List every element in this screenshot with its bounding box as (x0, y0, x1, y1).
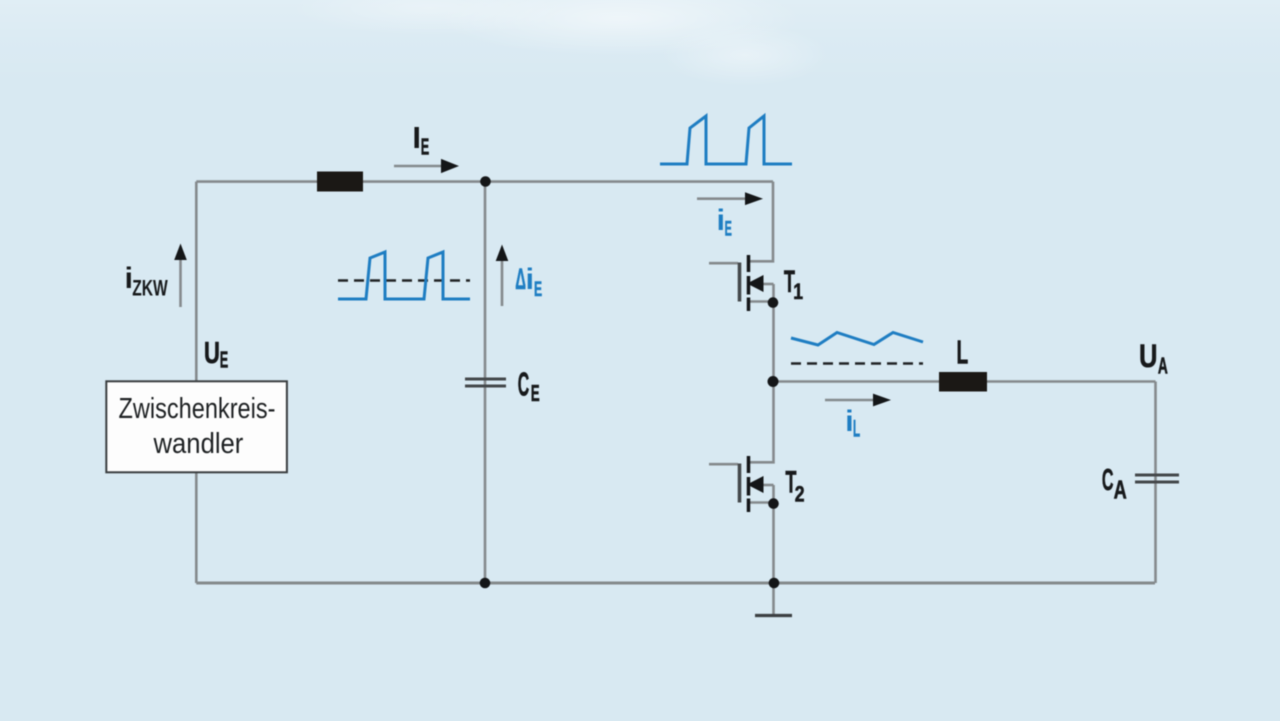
svg-text:A: A (1158, 354, 1168, 379)
svg-text:A: A (1114, 475, 1127, 504)
svg-text:E: E (725, 217, 732, 241)
svg-text:i: i (845, 405, 853, 438)
svg-text:wandler: wandler (153, 427, 244, 460)
svg-text:C: C (1102, 464, 1114, 498)
svg-text:2: 2 (795, 483, 805, 507)
svg-text:C: C (518, 367, 529, 403)
svg-text:E: E (421, 133, 429, 159)
svg-text:L: L (853, 416, 860, 443)
svg-text:1: 1 (793, 280, 803, 304)
svg-text:Zwischenkreis-: Zwischenkreis- (119, 392, 276, 425)
svg-text:E: E (220, 346, 228, 372)
svg-text:E: E (531, 380, 540, 406)
svg-text:i: i (717, 204, 725, 237)
svg-text:ZKW: ZKW (132, 277, 168, 301)
svg-text:Δ: Δ (515, 264, 526, 297)
svg-text:i: i (526, 263, 534, 296)
svg-text:U: U (1139, 339, 1157, 374)
svg-text:U: U (204, 335, 220, 370)
svg-text:E: E (534, 276, 542, 300)
svg-text:L: L (957, 334, 969, 371)
svg-text:I: I (412, 120, 421, 155)
